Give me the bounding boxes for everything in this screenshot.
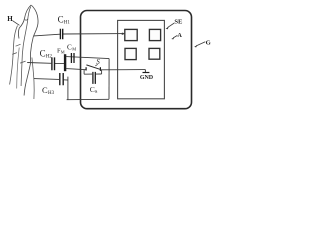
label H leader <box>12 21 19 26</box>
wire A continuation to GND corner <box>101 69 145 71</box>
hand H outer lower edge <box>32 58 34 100</box>
label G arrowhead <box>194 45 197 47</box>
svg-text:G: G <box>206 39 211 46</box>
loop wiring: left edge <box>67 77 69 100</box>
hand crease tick 1 <box>16 44 21 46</box>
svg-text:C: C <box>40 49 46 59</box>
label S leader <box>95 64 97 66</box>
capacitor CS plates <box>93 72 95 84</box>
electrode FM thick bar <box>64 54 66 71</box>
switch S lever <box>86 65 100 69</box>
label A leader <box>173 35 177 38</box>
hand H nail inner line / crease <box>21 7 31 87</box>
hand H outline: nail tip arc <box>18 5 31 39</box>
electrode pad square 3 <box>125 48 136 59</box>
ground bar <box>143 72 150 74</box>
svg-text:H3: H3 <box>48 91 55 96</box>
label G leader <box>196 42 205 46</box>
svg-text:GND: GND <box>140 75 154 81</box>
svg-text:S: S <box>96 58 100 66</box>
hand extra inner stroke <box>17 48 20 89</box>
capacitor CM plates <box>71 53 74 63</box>
wire 3 (hand to CH3 to loop) <box>34 78 59 81</box>
capacitor CH2 plates <box>52 57 55 70</box>
svg-text:H: H <box>7 15 13 23</box>
wire 2 (hand to CH2 to FM) <box>27 62 51 65</box>
hand H outline: left edge <box>10 26 18 85</box>
inner box SE (electrode carrier) <box>118 20 165 98</box>
svg-text:SE: SE <box>174 18 183 25</box>
label SE arrowhead <box>166 27 169 29</box>
loop wiring: right edge <box>108 59 110 100</box>
svg-text:H2: H2 <box>46 54 53 59</box>
electrode pad square 4 <box>149 48 160 59</box>
loop wiring: bottom edge <box>67 98 109 100</box>
svg-text:M: M <box>72 47 76 52</box>
label SE leader <box>168 23 175 28</box>
svg-text:H1: H1 <box>64 20 71 25</box>
hand crease tick 2 <box>12 53 17 55</box>
hand H nail base arc <box>25 19 28 20</box>
capacitor CH3 plates <box>60 73 63 85</box>
big box G (device housing) <box>81 11 192 109</box>
svg-text:S: S <box>95 89 98 94</box>
wire 1 (hand to CH1 to pad 1) <box>34 34 61 36</box>
capacitor CH1 plates <box>60 29 62 40</box>
wire A (FM bottom toward switch) <box>66 69 86 70</box>
hand H outline: fingertip + right edge <box>24 5 38 96</box>
CS branch bottom wire left segment <box>84 73 92 75</box>
electrode pad square 1 <box>125 29 137 40</box>
svg-text:A: A <box>177 32 182 39</box>
electrode pad square 2 <box>149 29 160 40</box>
CS branch bottom wire right segment <box>96 73 102 75</box>
junction blob on wire 1 at inner box edge <box>122 33 124 35</box>
CS branch right rise <box>101 70 103 74</box>
svg-text:M: M <box>61 49 65 54</box>
capacitor CS branch: left drop <box>83 70 85 75</box>
switch S left contact <box>85 67 87 70</box>
GND drop stub <box>144 70 146 73</box>
svg-text:C: C <box>58 15 64 25</box>
hand crease tick 3 <box>20 61 26 63</box>
label A arrowhead <box>171 37 174 39</box>
wire B (FM top to loop corner, through CM) <box>66 57 109 59</box>
switch S right contact <box>99 67 101 71</box>
